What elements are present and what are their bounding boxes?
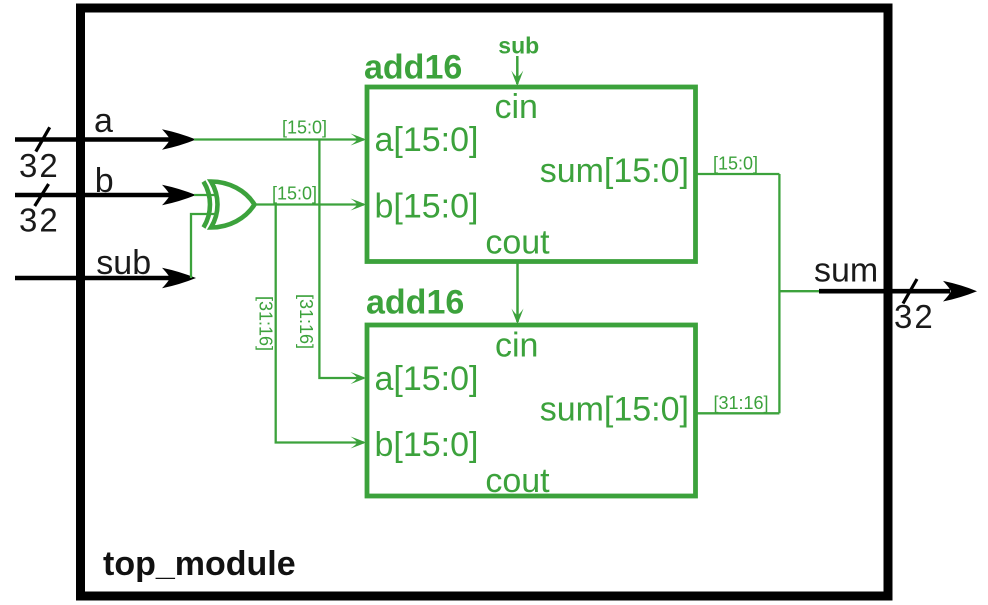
arrowhead sub xyxy=(162,268,196,289)
wire branch xor-out lower (green) to add16 #2 b input xyxy=(276,205,364,443)
add16 instance 2 box xyxy=(367,325,696,496)
wire sum junction to output xyxy=(779,290,821,292)
wire output sum (black) xyxy=(819,289,950,294)
svg-text:sub: sub xyxy=(96,244,151,282)
arrowhead into a[15:0] of add16 #1 xyxy=(351,134,367,146)
svg-text:32: 32 xyxy=(894,298,935,335)
arrowhead b xyxy=(162,185,196,206)
wire xor output (green) to add16 #1 b input xyxy=(255,203,365,205)
wire cout1 to cin2 xyxy=(516,262,519,323)
svg-text:sub: sub xyxy=(498,33,539,59)
wire sum trunk vertical xyxy=(778,174,780,413)
svg-text:add16: add16 xyxy=(364,49,462,87)
wire input b (black) xyxy=(15,193,186,198)
svg-text:sum: sum xyxy=(814,252,878,290)
svg-text:add16: add16 xyxy=(366,284,464,322)
add16 instance 1 box xyxy=(367,87,696,262)
svg-text:a: a xyxy=(94,102,113,140)
svg-text:a[15:0]: a[15:0] xyxy=(375,121,479,159)
wire input sub (black) xyxy=(15,276,186,281)
svg-text:[31:16]: [31:16] xyxy=(256,296,276,351)
svg-text:sum[15:0]: sum[15:0] xyxy=(540,152,689,190)
arrowhead into cin of add16 #1 xyxy=(511,71,523,87)
wire sum1 out to trunk xyxy=(696,173,780,175)
svg-text:cin: cin xyxy=(495,326,538,364)
svg-text:32: 32 xyxy=(19,201,60,238)
wire input a (black) xyxy=(15,137,186,142)
svg-text:[15:0]: [15:0] xyxy=(713,154,758,174)
svg-text:sum[15:0]: sum[15:0] xyxy=(540,390,689,428)
svg-text:[15:0]: [15:0] xyxy=(272,184,317,204)
svg-text:b[15:0]: b[15:0] xyxy=(375,426,479,464)
svg-text:[31:16]: [31:16] xyxy=(714,393,769,413)
arrowhead a xyxy=(162,129,196,150)
bus slash a xyxy=(36,127,50,151)
svg-text:[15:0]: [15:0] xyxy=(282,118,327,138)
wire sum2 out to trunk xyxy=(696,412,780,414)
svg-text:b[15:0]: b[15:0] xyxy=(375,188,479,226)
svg-text:cin: cin xyxy=(495,88,538,126)
wire branch a lower (green) to add16 #2 a input xyxy=(319,140,364,379)
arrowhead into b[15:0] of add16 #1 xyxy=(351,199,367,211)
svg-text:cout: cout xyxy=(485,224,550,262)
svg-text:cout: cout xyxy=(485,462,550,500)
arrowhead into cin of add16 #2 xyxy=(512,309,524,325)
svg-text:top_module: top_module xyxy=(103,545,296,583)
green wire sub branch up into xor xyxy=(191,214,217,278)
svg-text:b: b xyxy=(95,162,114,200)
xor gate U1 xyxy=(204,182,255,228)
wire a (green) from arrow to add16 #1 a input xyxy=(194,138,364,140)
wire sub to cin of add16 #1 xyxy=(516,56,519,84)
module boundary top_module xyxy=(81,8,889,596)
svg-text:32: 32 xyxy=(19,147,60,184)
arrowhead into b[15:0] of add16 #2 xyxy=(351,437,367,449)
arrowhead sum xyxy=(943,281,977,302)
green wire b stub into xor xyxy=(194,194,217,196)
arrowhead into a[15:0] of add16 #2 xyxy=(351,372,367,384)
svg-text:a[15:0]: a[15:0] xyxy=(375,360,479,398)
bus slash b xyxy=(35,184,49,206)
svg-text:[31:16]: [31:16] xyxy=(296,294,316,349)
bus slash sum xyxy=(903,279,917,304)
